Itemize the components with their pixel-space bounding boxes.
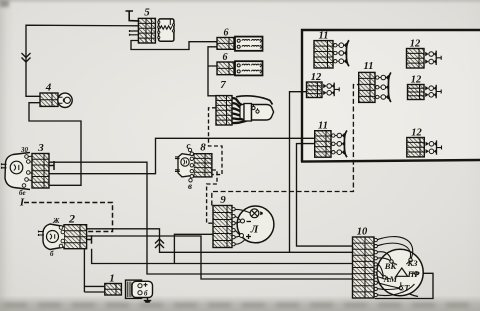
connector block of lamp 8: [194, 154, 212, 177]
switch 10 dial circle: [377, 249, 423, 295]
lamps of block 11a: [334, 44, 337, 47]
connector block of socket 1: [105, 284, 122, 296]
lamp 8 left stubs: [175, 157, 180, 172]
connector block of lamp 11c: [315, 131, 331, 158]
dashed link block 7 to lamp 8: [209, 108, 223, 175]
cab section lighter paper: [303, 31, 480, 160]
headlamp 3 housing: [5, 153, 30, 190]
switch 10 terminal KZ: [409, 258, 412, 261]
connector block of switch 10: [353, 237, 375, 298]
wire branch junction to lamp 9 block: [174, 234, 213, 263]
wire stubs into horn 6a: [234, 41, 235, 47]
connector block of lamp 12c: [408, 85, 425, 100]
svg-text:КЗ: КЗ: [406, 258, 418, 268]
switch 10 terminal AM: [383, 276, 386, 279]
connector block of lamp 7: [216, 96, 232, 125]
connector block of relay 5: [138, 18, 155, 43]
headlamp 2 bulb: [47, 231, 59, 243]
svg-text:11: 11: [364, 61, 374, 72]
wire relay 5 bottom to horn 6a: [131, 41, 217, 50]
dashed trailer line I: [24, 203, 113, 232]
connector block of lamp 11a: [314, 41, 333, 68]
border frame bottom thick line: [301, 160, 480, 162]
lamps of block 11c: [332, 134, 335, 137]
socket 1 second terminal: [138, 291, 142, 295]
svg-text:1: 1: [109, 273, 115, 285]
connector block of headlamp 3: [32, 154, 49, 189]
ground symbol below socket 1: [144, 298, 151, 303]
svg-text:АМ: АМ: [383, 274, 398, 284]
lamp 9 link wires: [235, 209, 250, 244]
headlamp 3 left stubs: [2, 163, 7, 169]
ground symbol right of block 2: [87, 235, 92, 244]
lamp 9 circle body: [237, 206, 274, 243]
headlamp 2 left stubs: [39, 231, 45, 237]
wire from lamp 4 down to headlamp 3 bottom row: [29, 103, 81, 186]
wire from relay 5 to lamp 4 (top-left run): [26, 25, 138, 96]
connector block of horn 6b: [217, 62, 234, 75]
lamp 8 terminals: [190, 152, 193, 155]
switch 10 fan wires: [377, 237, 415, 296]
connector block of horn 6a: [217, 38, 234, 50]
wire node 3-to-11: headlamp 3 row to lamp block 11c: [49, 138, 314, 173]
lamps of block 11b: [376, 76, 379, 79]
svg-text:4: 4: [45, 82, 52, 94]
svg-text:2: 2: [68, 212, 75, 226]
svg-text:8: 8: [200, 142, 206, 154]
socket 1 body: [126, 280, 142, 298]
connector block of lamp 4: [40, 93, 58, 106]
svg-text:Ж: Ж: [52, 217, 60, 225]
svg-text:в: в: [188, 181, 192, 191]
svg-text:12: 12: [311, 72, 322, 83]
dashed link lamp 8 to lamp 9: [207, 170, 217, 223]
connector block of headlamp 2: [64, 225, 87, 249]
chevron crossover on wire at x159: [155, 239, 164, 248]
headlamp 3 bulb: [10, 161, 23, 174]
wire node 3-to-10: headlamp 3 row to switch 10: [49, 162, 353, 274]
wires from block 7 to lamp 7 plug: [232, 98, 247, 123]
chevron crossover on left vertical wire: [22, 53, 31, 62]
svg-text:I: I: [19, 197, 25, 209]
svg-text:ПР: ПР: [407, 269, 421, 279]
lamp 9 plus terminal: [240, 234, 244, 238]
switch 10 terminal VK: [390, 260, 393, 263]
svg-text:7: 7: [220, 79, 226, 91]
border frame of cab section (thick L lines): [302, 30, 480, 162]
svg-text:б: б: [144, 290, 148, 298]
switch 10 terminal ST: [399, 286, 402, 289]
connector block of lamp 12d: [407, 138, 425, 157]
lamp 9 terminal circles on block: [232, 208, 235, 211]
lamp 9 bulb symbol: [250, 209, 259, 218]
svg-text:5: 5: [144, 7, 150, 19]
lamp 4 bulb: [58, 93, 72, 107]
svg-text:30: 30: [20, 146, 29, 154]
switch 10 terminal PR: [415, 272, 418, 275]
horn 6a body: [235, 37, 263, 51]
wire headlamp 2 to socket 1: [84, 249, 104, 292]
headlamp 3 terminals: [25, 155, 29, 159]
wire stubs into horn 6b: [234, 65, 235, 71]
headlamp 2 terminals: [59, 226, 63, 230]
connector block of lamp 12a: [407, 49, 425, 69]
horn 6b body: [235, 61, 263, 75]
wire headlamp 2 row1 to switch 10: [87, 229, 353, 253]
svg-text:12: 12: [411, 75, 422, 86]
lamp 7 plug body: [240, 104, 244, 120]
connector block of lamp 11b: [359, 72, 375, 102]
svg-text:6: 6: [224, 28, 229, 39]
lamp 9 minus terminal: [241, 219, 245, 223]
socket 1 plus terminal: [138, 284, 142, 288]
lamps of block 12d: [426, 142, 429, 146]
switch 10 block terminal circles: [374, 238, 377, 241]
switch 10 triangle: [396, 268, 408, 276]
headlamp 2 housing: [43, 224, 64, 250]
dashed link lamp 9 to lamp block 11b: [212, 85, 359, 206]
connector block of lamp 9: [213, 206, 232, 248]
svg-text:10: 10: [357, 227, 368, 238]
ground symbol right of block 3: [49, 161, 54, 170]
lamps of block 12c: [425, 86, 428, 90]
lamps of block 12b: [323, 84, 326, 88]
svg-text:11: 11: [319, 31, 329, 42]
svg-text:c: c: [187, 141, 191, 151]
svg-text:12: 12: [411, 128, 422, 139]
wire headlamp 2 bottom to switch 10 via long run: [92, 249, 353, 264]
wire lamp 12b to vertical bus: [290, 92, 307, 253]
svg-text:6: 6: [223, 52, 228, 63]
wire loop from switch 10 PR terminal to block bottom: [375, 273, 433, 298]
svg-text:9: 9: [220, 194, 226, 206]
lamp 8 housing: [178, 154, 194, 177]
relay 5 body: [159, 19, 174, 41]
svg-text:3: 3: [37, 142, 44, 154]
headlamp 3 lead curves: [28, 156, 32, 181]
wire bus horn 6a to horn 6b to block 7: [208, 47, 217, 96]
lamp 8 bulb: [181, 158, 189, 166]
svg-text:б: б: [50, 250, 54, 258]
wire from ST terminal to loop: [402, 289, 418, 297]
svg-text:12: 12: [410, 39, 421, 50]
wire lamp 11c row to switch 10 row2: [297, 144, 354, 247]
open connector stub at relay 5: [130, 30, 139, 36]
svg-text:Л: Л: [250, 224, 259, 236]
svg-text:ВК: ВК: [384, 261, 398, 271]
ground symbol at relay 5: [126, 11, 139, 21]
lamps of block 12a: [425, 52, 428, 56]
connector block of lamp 12b: [307, 82, 323, 98]
wire headlamp 2 row2 to switch 10 lower row: [87, 236, 353, 279]
svg-text:11: 11: [318, 121, 328, 132]
